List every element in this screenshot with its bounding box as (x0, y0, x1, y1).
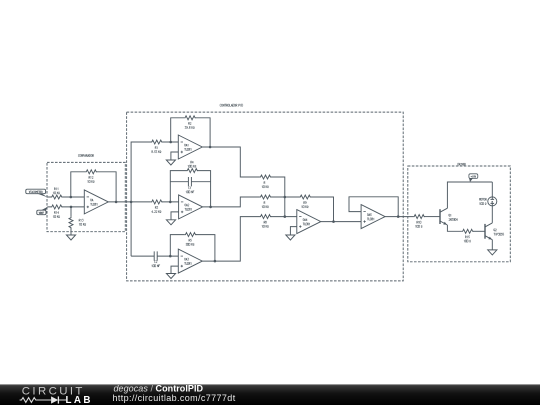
wire bus to R3 (162, 201, 179, 203)
node OA3 output junction (214, 260, 217, 263)
resistor R2 (184, 116, 196, 129)
section title Comparador (78, 154, 94, 156)
op-amp OA2 (179, 195, 203, 219)
svg-text:degocas / ControlPID: degocas / ControlPID (114, 383, 204, 393)
transistor Q2 TIP3055 (485, 223, 504, 240)
ground Q2 (488, 250, 497, 255)
wire OA2 plus to ground (171, 212, 179, 220)
wire bus to C2 (131, 255, 178, 257)
node minus junction comparator (70, 196, 73, 199)
node OA2 output junction (209, 206, 212, 209)
node OA3 minus junction (169, 255, 172, 258)
wire R5 feedback loop (170, 235, 215, 262)
resistor R10 (413, 215, 425, 228)
resistor R13 (69, 217, 86, 229)
resistor R11 (51, 188, 63, 199)
wire input bus vertical (131, 142, 151, 256)
ground OA1 (166, 160, 175, 165)
resistor R5 (185, 233, 197, 246)
wire Vtacometro to R11 to op-amp minus (47, 196, 84, 198)
resistor R9 (300, 195, 312, 208)
node buffer output junction (397, 215, 400, 218)
wire motor to Q2 collector (491, 203, 493, 223)
op-amp OA1 (178, 135, 202, 159)
wire buffer feedback loop (349, 197, 398, 217)
resistor R3 (151, 200, 163, 213)
op-amp OA5 buffer (361, 205, 385, 229)
node R7 junction (284, 196, 287, 199)
node Vref flag (37, 207, 48, 215)
node OA1 minus junction (169, 141, 172, 144)
wire R10 to Q1 base (424, 216, 440, 218)
ground OA2 (166, 220, 175, 225)
section box Driver (408, 166, 511, 262)
node OA4 output junction (332, 220, 335, 223)
node bus junction (130, 201, 133, 204)
node Vtacometro flag (26, 189, 48, 197)
power flag +18V (469, 174, 478, 182)
wire R9 feedback loop (285, 197, 334, 222)
svg-text:LAB: LAB (66, 395, 93, 405)
resistor R6 (260, 175, 272, 188)
wire OA4 output to buffer (321, 221, 361, 223)
wire R13 branch (70, 207, 72, 235)
wire OA1 output to R6 (202, 147, 260, 177)
node OA1 output junction (209, 146, 212, 149)
op-amp OA3 (178, 249, 202, 273)
wire R4 C1 feedback loop (170, 171, 210, 207)
wire Vref to R14 to op-amp plus (47, 206, 84, 208)
transistor Q1 2N3904 (440, 208, 457, 225)
resistor R4 (187, 161, 199, 173)
op-amp OA4 (297, 210, 321, 234)
wire comparator output to PID bus (108, 201, 151, 203)
node feedback-output junction (115, 201, 118, 204)
ground OA3 (166, 274, 175, 279)
op-amp OA6 (84, 190, 108, 214)
wire Q1 emitter to R15 (447, 225, 462, 231)
motor M1 100 Ohm (479, 197, 496, 206)
section title Driver (458, 163, 466, 165)
resistor R8 (260, 215, 272, 228)
ground below R13 (66, 235, 75, 240)
wire R12 feedback loop (71, 172, 116, 202)
node OA2 minus junction (169, 201, 172, 204)
wire summing junction vertical (271, 177, 297, 217)
resistor R1 (151, 140, 163, 153)
wire OA4 plus to ground (290, 227, 296, 235)
wire rail to motor (491, 182, 493, 199)
svg-text:http://circuitlab.com/c7777dt: http://circuitlab.com/c7777dt (113, 393, 236, 403)
footer credits text (113, 383, 236, 403)
wire OA3 output to R8 (202, 217, 260, 262)
section box Comparador (47, 162, 125, 231)
ground OA4 (286, 235, 295, 240)
node plus junction comparator (70, 206, 73, 209)
wire Q2 emitter to ground (491, 240, 493, 250)
resistor R12 (86, 170, 98, 183)
resistor R14 (51, 205, 63, 218)
capacitor C1 (186, 177, 194, 193)
wire Q1 collector to +18V rail (447, 182, 492, 208)
wire OA2 output to R7 (203, 197, 260, 207)
wire R15 to Q2 base (473, 230, 485, 232)
wire OA1 plus to ground (171, 152, 178, 160)
wire R2 feedback loop (171, 118, 210, 147)
capacitor C2 (152, 251, 160, 267)
resistor R15 (462, 229, 474, 242)
wire OA3 plus to ground (171, 266, 178, 273)
resistor R7 (260, 195, 272, 208)
logo CIRCUIT LAB (20, 385, 93, 405)
section box Controlador PID (127, 112, 404, 281)
wire buffer output to driver (385, 216, 413, 218)
section title Controlador PID (220, 104, 243, 106)
node R8 junction (284, 215, 287, 218)
wire R1 to OA1 (162, 141, 178, 143)
